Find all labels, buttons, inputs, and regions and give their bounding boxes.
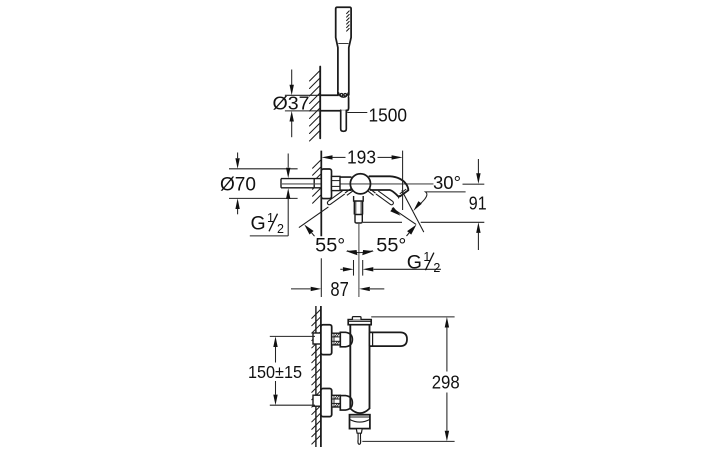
dimension 150±15 xyxy=(270,336,315,405)
top hex nut (side) xyxy=(332,333,341,345)
bottom supply pipe behind wall xyxy=(313,395,321,406)
lever (side view) xyxy=(370,332,408,346)
label G 1/2 right xyxy=(407,250,441,275)
svg-text:193: 193 xyxy=(347,148,376,168)
dimension 193 xyxy=(402,151,404,210)
lever stub right at ball xyxy=(368,191,374,196)
svg-text:298: 298 xyxy=(432,372,460,392)
top escutcheon (side) xyxy=(321,325,332,355)
mixer body (side) xyxy=(350,325,369,409)
body cap (side) xyxy=(348,320,371,325)
hand shower body xyxy=(336,7,351,95)
hose nut xyxy=(355,215,362,224)
swivel arc 55°-55° xyxy=(347,251,373,253)
leader 30° with curve and arrow xyxy=(421,192,466,204)
svg-text:2: 2 xyxy=(277,222,284,236)
lever outline right (55° position) xyxy=(376,191,394,205)
wall flange escutcheon xyxy=(321,169,331,199)
body bottom dome xyxy=(350,409,369,414)
hose centerline xyxy=(358,223,360,297)
water stream line 30° xyxy=(402,190,424,232)
bottom escutcheon (side) xyxy=(321,389,332,417)
spout aerator tip xyxy=(398,195,399,198)
top ball joint (side) xyxy=(340,332,352,347)
svg-text:Ø37: Ø37 xyxy=(273,94,310,114)
svg-text:Ø70: Ø70 xyxy=(220,174,256,195)
dimension 91 xyxy=(477,159,479,174)
centerline of mixer xyxy=(282,183,434,185)
motion arrow on right lever xyxy=(390,207,400,216)
shower handle separation line xyxy=(339,42,349,44)
shower handle over bracket xyxy=(339,90,348,97)
label 1500 with leader xyxy=(347,112,367,114)
bottom hex nut (side) xyxy=(332,395,341,407)
top supply pipe behind wall xyxy=(313,333,321,344)
supply pipe tail (left of wall) xyxy=(281,179,321,188)
cap knob (side) xyxy=(352,317,361,320)
wall hatching (middle view) xyxy=(312,160,320,203)
shower outlet nipple xyxy=(354,201,362,215)
dimension G1/2 left thread arrows xyxy=(250,154,288,236)
mixer ball body xyxy=(350,174,370,194)
svg-text:G: G xyxy=(251,213,266,235)
dimension 298 xyxy=(362,317,454,442)
lever line right to end xyxy=(392,208,416,225)
wall (middle view) xyxy=(320,151,322,237)
leader arrow 55° right xyxy=(407,225,416,235)
wall (top view) xyxy=(319,67,321,139)
svg-text:30°: 30° xyxy=(433,172,461,193)
spout mouth inner lip xyxy=(400,189,406,194)
shower hose xyxy=(341,110,347,131)
lever stub left at ball xyxy=(347,191,353,195)
dimension Ø70 xyxy=(229,153,298,215)
lever line left to end xyxy=(299,207,329,228)
shower cone end in holder xyxy=(339,93,349,97)
svg-text:87: 87 xyxy=(330,279,348,301)
outlet fitting xyxy=(356,429,362,434)
wall hatching (side view) xyxy=(312,309,321,444)
spray face ticks on shower head xyxy=(347,11,350,31)
union hex nut xyxy=(332,176,341,190)
wall lines (side view) xyxy=(315,306,317,447)
svg-text:55°: 55° xyxy=(376,235,406,257)
wall hatching (top view) xyxy=(310,71,320,141)
svg-text:91: 91 xyxy=(469,194,487,214)
label G 1/2 left xyxy=(251,211,285,236)
collar below ball xyxy=(354,196,364,201)
spout xyxy=(369,176,409,196)
reference line y=222 (91 bottom / lever tips) xyxy=(363,221,402,223)
dimension G1/2 right (hose thread) xyxy=(340,260,441,276)
lever outline left (55° position) xyxy=(327,191,344,205)
dimension 87 xyxy=(291,258,384,297)
svg-text:G: G xyxy=(407,252,422,274)
svg-text:150±15: 150±15 xyxy=(248,362,302,382)
drip tube and drop xyxy=(358,433,360,439)
wall holder bracket xyxy=(321,95,349,111)
outlet cup xyxy=(350,415,370,429)
svg-text:2: 2 xyxy=(433,261,440,275)
bottom ball joint (side) xyxy=(340,396,352,411)
svg-text:55°: 55° xyxy=(315,235,345,257)
svg-text:1500: 1500 xyxy=(369,105,408,125)
leader arrow 55° left xyxy=(304,225,313,235)
dimension Ø37 xyxy=(285,70,320,138)
pipe from nut to body xyxy=(340,177,352,190)
